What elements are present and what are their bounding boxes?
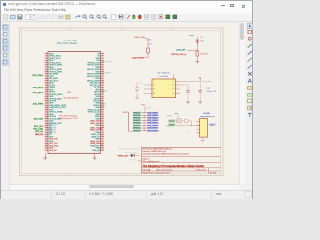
svg-text:39: 39 xyxy=(45,95,47,97)
svg-text:B1: B1 xyxy=(172,93,174,95)
svg-text:1: 1 xyxy=(150,88,151,90)
svg-text:72: 72 xyxy=(102,131,104,133)
svg-text:2: 2 xyxy=(102,52,103,54)
diode D1 LED xyxy=(196,39,199,46)
net label +3V3_RPI on J1 right xyxy=(102,61,112,63)
svg-text:15: 15 xyxy=(45,68,47,70)
connector J1 value field xyxy=(57,42,78,45)
wire to D1 xyxy=(187,49,198,51)
svg-text:U5 TXB0104: U5 TXB0104 xyxy=(157,72,170,74)
svg-text:9: 9 xyxy=(46,61,47,63)
svg-text:78: 78 xyxy=(102,138,104,140)
svg-text:31: 31 xyxy=(45,86,47,88)
ground GND8 xyxy=(138,161,142,162)
svg-text:SDX_D0: SDX_D0 xyxy=(49,150,56,152)
net labels U1 left xyxy=(144,85,147,95)
svg-text:I2C0_SDA1: I2C0_SDA1 xyxy=(32,74,43,77)
wire D1 to R2 xyxy=(196,45,198,51)
svg-text:61: 61 xyxy=(45,120,47,122)
svg-text:+3V3_RPI: +3V3_RPI xyxy=(202,81,212,83)
wire D5 right xyxy=(134,154,139,156)
svg-text:27: 27 xyxy=(45,81,47,83)
wire node down xyxy=(147,39,149,48)
resistor R2 fields xyxy=(200,53,208,55)
diode D5 xyxy=(131,154,134,158)
power +3V3 symbol xyxy=(199,77,201,81)
svg-text:8: 8 xyxy=(144,129,145,131)
svg-text:82: 82 xyxy=(102,142,104,144)
svg-text:VDAC: VDAC xyxy=(102,90,108,93)
svg-text:1: 1 xyxy=(46,52,47,54)
svg-text:32: 32 xyxy=(102,86,104,88)
svg-text:79: 79 xyxy=(45,140,47,142)
svg-text:D4: D4 xyxy=(140,84,142,86)
svg-text:7: 7 xyxy=(144,127,145,129)
wire R2 to ground xyxy=(196,56,198,62)
ground GND7 xyxy=(201,140,205,142)
svg-text:4: 4 xyxy=(102,55,103,57)
svg-text:44: 44 xyxy=(102,99,104,101)
svg-text:62: 62 xyxy=(102,120,104,122)
svg-text:A1: A1 xyxy=(153,84,155,87)
svg-text:80: 80 xyxy=(102,140,104,142)
svg-text:54: 54 xyxy=(102,111,104,113)
connector J1 pin names left xyxy=(49,53,66,152)
svg-text:6: 6 xyxy=(102,57,103,59)
net label ACT_LED xyxy=(176,50,186,52)
svg-text:KiCad E.D.A. eeschema 4.0.7: KiCad E.D.A. eeschema 4.0.7 xyxy=(143,171,171,174)
capacitor C2 xyxy=(199,91,202,93)
capacitor C1 xyxy=(186,91,189,93)
wire to J2 xyxy=(144,106,146,111)
svg-text:14: 14 xyxy=(173,74,175,76)
svg-text:4: 4 xyxy=(144,119,145,121)
svg-text:D5: D5 xyxy=(135,152,137,154)
svg-text:14: 14 xyxy=(102,66,104,68)
net label SPI at R1 bottom xyxy=(132,56,148,59)
svg-text:5: 5 xyxy=(46,57,47,59)
svg-text:Licensed under the CERN OHL li: Licensed under the CERN OHL licence v1.2… xyxy=(143,153,189,156)
svg-text:B1: B1 xyxy=(172,81,174,83)
svg-text:71: 71 xyxy=(45,131,47,133)
net label SDX_D0 on J1 left xyxy=(35,131,44,133)
resistor R1 fields xyxy=(148,40,153,46)
svg-text:File: cm4-gpio.sch: File: cm4-gpio.sch xyxy=(143,161,161,163)
svg-text:12: 12 xyxy=(102,64,104,66)
wire rail to C2 xyxy=(199,82,201,91)
wire U1 to +3V3 rail xyxy=(180,81,200,83)
svg-text:22: 22 xyxy=(102,75,104,77)
net label VBUS green box 1 xyxy=(168,120,175,123)
net label VDAC on J1 right xyxy=(102,90,108,93)
connector J1 left pins with pin numbers xyxy=(45,52,48,151)
svg-text:100nF C13: 100nF C13 xyxy=(206,91,217,93)
svg-text:Size: A4: Size: A4 xyxy=(143,169,151,172)
svg-text:SPI0_MISO: SPI0_MISO xyxy=(32,92,43,94)
net label I2C0_SDA1 on J1 left xyxy=(32,74,43,77)
wire C1 to ground xyxy=(187,92,189,102)
fuse F1 xyxy=(177,119,181,123)
svg-text:40: 40 xyxy=(102,95,104,97)
svg-text:57: 57 xyxy=(45,115,47,117)
svg-text:65: 65 xyxy=(45,124,47,126)
svg-text:60: 60 xyxy=(102,117,104,119)
svg-text:19: 19 xyxy=(45,73,47,75)
net label PWR_LED xyxy=(118,155,129,157)
svg-text:59: 59 xyxy=(45,117,47,119)
svg-text:1: 1 xyxy=(144,111,145,113)
net label STATUS_LED xyxy=(171,53,187,56)
svg-text:28: 28 xyxy=(102,81,104,83)
svg-text:29: 29 xyxy=(45,84,47,86)
net label USB on J1 right xyxy=(98,128,103,130)
wire U1 to C1 xyxy=(180,85,188,90)
junction dot xyxy=(191,125,192,126)
svg-text:B1: B1 xyxy=(172,85,174,87)
svg-text:Rev: 1.0: Rev: 1.0 xyxy=(198,170,207,172)
IC U1 value field xyxy=(159,75,169,78)
svg-text:Add 4x mounting holes 2.7mm: Add 4x mounting holes 2.7mm xyxy=(118,147,145,150)
net label SDX_CLK on J1 left xyxy=(34,126,44,128)
ground GND4 xyxy=(186,102,190,104)
power +5V symbol xyxy=(175,113,179,119)
svg-text:26: 26 xyxy=(102,79,104,81)
net label left of bus xyxy=(122,112,129,114)
ferrite bead FB1 xyxy=(184,119,188,123)
svg-text:GPIO: GPIO xyxy=(141,104,146,106)
svg-text:USB_MICRO_B: USB_MICRO_B xyxy=(200,116,215,118)
svg-text:88: 88 xyxy=(102,149,104,151)
svg-text:VBUS: VBUS xyxy=(169,121,175,123)
svg-text:84: 84 xyxy=(102,144,104,146)
svg-text:USB: USB xyxy=(98,128,103,130)
svg-text:23: 23 xyxy=(45,77,47,79)
svg-text:The Raspberry Pi Compute Modul: The Raspberry Pi Compute Module 4 Base C… xyxy=(143,164,204,168)
net label CM4_EN xyxy=(134,36,145,39)
ground GND1 xyxy=(44,158,48,160)
wire bus drop xyxy=(129,112,133,131)
svg-text:55: 55 xyxy=(45,113,47,115)
svg-text:2: 2 xyxy=(144,114,145,116)
svg-text:AUD_PWM: AUD_PWM xyxy=(33,103,44,106)
connector J1 right pins with pin numbers xyxy=(101,52,104,151)
svg-text:EXP_GPIO8: EXP_GPIO8 xyxy=(147,130,158,132)
svg-text:76: 76 xyxy=(102,135,104,137)
svg-text:41: 41 xyxy=(45,97,47,99)
ESD note xyxy=(187,131,191,133)
net label AUD_PWM on J1 left xyxy=(33,103,44,106)
svg-text:16: 16 xyxy=(102,68,104,70)
note under D5 xyxy=(129,159,138,161)
svg-text:+5V_SYS: +5V_SYS xyxy=(102,73,111,75)
connector J1 note block xyxy=(58,114,78,120)
svg-text:6: 6 xyxy=(144,124,145,126)
svg-text:51: 51 xyxy=(45,108,47,110)
svg-text:+3V3_RPI: +3V3_RPI xyxy=(102,61,112,63)
diode D3 fields xyxy=(140,84,142,86)
svg-text:CM4_GPIO_Header: CM4_GPIO_Header xyxy=(57,42,78,45)
svg-text:74: 74 xyxy=(102,133,104,135)
svg-text:38: 38 xyxy=(102,93,104,95)
net label header top xyxy=(141,104,152,109)
resistor R2 xyxy=(196,51,199,56)
svg-text:GPIO13: GPIO13 xyxy=(133,130,140,132)
svg-text:5: 5 xyxy=(144,122,145,124)
svg-text:49: 49 xyxy=(45,106,47,108)
svg-text:11: 11 xyxy=(45,64,47,66)
svg-text:30: 30 xyxy=(102,84,104,86)
wire J1 bottom right to ground xyxy=(94,153,96,158)
net label right 2 xyxy=(166,125,175,128)
svg-text:1: 1 xyxy=(150,92,151,94)
net label right 1 xyxy=(166,115,173,118)
wire ferrite to J3 xyxy=(175,121,199,126)
wire R1 down xyxy=(147,53,149,58)
svg-text:PWM1: PWM1 xyxy=(100,106,107,108)
svg-text:GNDD: GNDD xyxy=(169,125,175,127)
ground GND3 xyxy=(196,62,200,64)
svg-text:GND: GND xyxy=(67,92,72,94)
ground GND2 xyxy=(93,158,97,160)
diode D1 fields xyxy=(200,37,204,43)
connector J3 left pins xyxy=(196,121,199,133)
svg-text:SPI0_MOSI: SPI0_MOSI xyxy=(32,87,43,89)
svg-text:STATUS_LED_R: STATUS_LED_R xyxy=(171,53,187,56)
svg-text:R16 330: R16 330 xyxy=(200,53,208,55)
svg-text:63: 63 xyxy=(45,122,47,124)
svg-text:USB_P: USB_P xyxy=(209,125,216,127)
svg-text:7: 7 xyxy=(46,59,47,61)
svg-text:24: 24 xyxy=(102,77,104,79)
net label box right of J3 xyxy=(209,123,216,126)
svg-text:53: 53 xyxy=(45,111,47,113)
wire C2 to ground xyxy=(199,92,201,102)
connector J3 USB body xyxy=(200,119,208,138)
wire fuse to ferrite xyxy=(181,120,184,122)
svg-text:47: 47 xyxy=(45,104,47,106)
svg-text:77: 77 xyxy=(45,138,47,140)
wire label to D5 xyxy=(129,154,131,156)
svg-text:U4 CM4 Module: U4 CM4 Module xyxy=(63,97,79,99)
net label GND green box 2 xyxy=(168,123,175,126)
diode D3 vertical xyxy=(135,82,139,97)
connector J1 CM4 GPIO header body xyxy=(48,52,101,154)
svg-text:87: 87 xyxy=(45,149,47,151)
svg-text:42: 42 xyxy=(102,97,104,99)
svg-text:USB_DM: USB_DM xyxy=(92,150,100,152)
svg-text:86: 86 xyxy=(102,147,104,149)
net label SPI0_MISO on J1 left xyxy=(32,92,43,94)
net label SPI0_MOSI on J1 left xyxy=(32,87,43,89)
svg-text:SDX_D0: SDX_D0 xyxy=(35,131,44,133)
svg-text:Id: 1/1: Id: 1/1 xyxy=(210,172,217,174)
connector J2 pins xyxy=(142,111,146,131)
IC U1 left pins xyxy=(147,84,152,94)
connector J2 pin names xyxy=(133,112,142,133)
svg-text:66: 66 xyxy=(102,124,104,126)
connector J1 pin names right xyxy=(87,53,101,152)
svg-text:PWR_LED: PWR_LED xyxy=(118,155,129,157)
svg-text:17: 17 xyxy=(45,70,47,72)
svg-text:CAM_PWDN: CAM_PWDN xyxy=(132,56,145,59)
svg-text:Date: 2017-03-14: Date: 2017-03-14 xyxy=(156,169,173,172)
svg-text:SDX_VDD: SDX_VDD xyxy=(34,119,44,121)
IC U1 body xyxy=(152,79,176,98)
net label PWM1 on J1 right xyxy=(100,106,107,108)
net label SDX_VDD on J1 left xyxy=(34,119,44,121)
IC U1 power pin xyxy=(173,74,175,79)
connector J1 note GND xyxy=(67,92,72,94)
svg-text:37: 37 xyxy=(45,93,47,95)
svg-text:83: 83 xyxy=(45,144,47,146)
connector J1 reference field xyxy=(63,40,76,42)
svg-text:1: 1 xyxy=(150,84,151,86)
svg-text:3: 3 xyxy=(46,55,47,57)
svg-text:67: 67 xyxy=(45,126,47,128)
note faint line 2 xyxy=(125,152,137,154)
wire VBUS to fuse xyxy=(175,120,177,122)
wire J3 shield down xyxy=(202,137,204,140)
svg-text:45: 45 xyxy=(45,102,47,104)
svg-text:58: 58 xyxy=(102,115,104,117)
IC U1 reference field xyxy=(157,72,170,74)
wire J1 bottom left to ground xyxy=(44,153,46,158)
svg-text:64: 64 xyxy=(102,122,104,124)
power +3V3 label top xyxy=(189,35,197,38)
svg-text:73: 73 xyxy=(45,133,47,135)
svg-text:PWR LED: PWR LED xyxy=(129,159,138,161)
note faint line 1 xyxy=(118,147,145,150)
svg-text:J6 USB: J6 USB xyxy=(203,113,210,115)
svg-text:LevelShift: LevelShift xyxy=(159,75,169,78)
svg-text:LED: LED xyxy=(200,41,204,43)
wire label to node xyxy=(144,38,148,40)
svg-text:56: 56 xyxy=(102,113,104,115)
ground GND6 xyxy=(135,97,139,99)
svg-text:35: 35 xyxy=(45,90,47,92)
svg-text:PWM0: PWM0 xyxy=(100,103,107,105)
svg-text:3: 3 xyxy=(144,116,145,118)
net label PWM0 on J1 right xyxy=(100,103,107,105)
connector J3 USB fields xyxy=(200,113,215,118)
svg-text:(c) Raspberry Pi 2017: (c) Raspberry Pi 2017 xyxy=(58,118,78,120)
capacitor C2 fields xyxy=(206,88,217,93)
svg-text:33: 33 xyxy=(45,88,47,90)
svg-text:B1: B1 xyxy=(172,89,174,91)
svg-text:25: 25 xyxy=(45,79,47,81)
svg-text:85: 85 xyxy=(45,147,47,149)
resistor R1 xyxy=(147,48,150,53)
diode D5 fields xyxy=(135,152,137,154)
net label SDX_CMD on J1 left xyxy=(33,128,43,130)
svg-text:+3V3_RPI: +3V3_RPI xyxy=(176,50,186,52)
svg-text:69: 69 xyxy=(45,129,47,131)
svg-text:21: 21 xyxy=(45,75,47,77)
svg-text:A1: A1 xyxy=(153,92,155,95)
svg-text:43: 43 xyxy=(45,99,47,101)
IC U1 pin names xyxy=(153,81,175,95)
svg-text:13: 13 xyxy=(45,66,47,68)
svg-text:81: 81 xyxy=(45,142,47,144)
svg-text:52: 52 xyxy=(102,108,104,110)
net labels right of J2 xyxy=(147,112,159,133)
connector J1 note center xyxy=(63,97,79,99)
IC U1 right pins xyxy=(176,80,181,94)
ground GND5 xyxy=(198,102,202,104)
svg-text:75: 75 xyxy=(45,135,47,137)
svg-text:A1: A1 xyxy=(153,88,155,91)
power +3V3 label xyxy=(202,81,212,83)
svg-text:SPARE: SPARE xyxy=(166,115,173,118)
svg-text:SDX_D1: SDX_D1 xyxy=(35,134,44,136)
net label SDX_D1 on J1 left xyxy=(35,134,44,136)
net label +5V_SYS on J1 right xyxy=(102,73,111,75)
